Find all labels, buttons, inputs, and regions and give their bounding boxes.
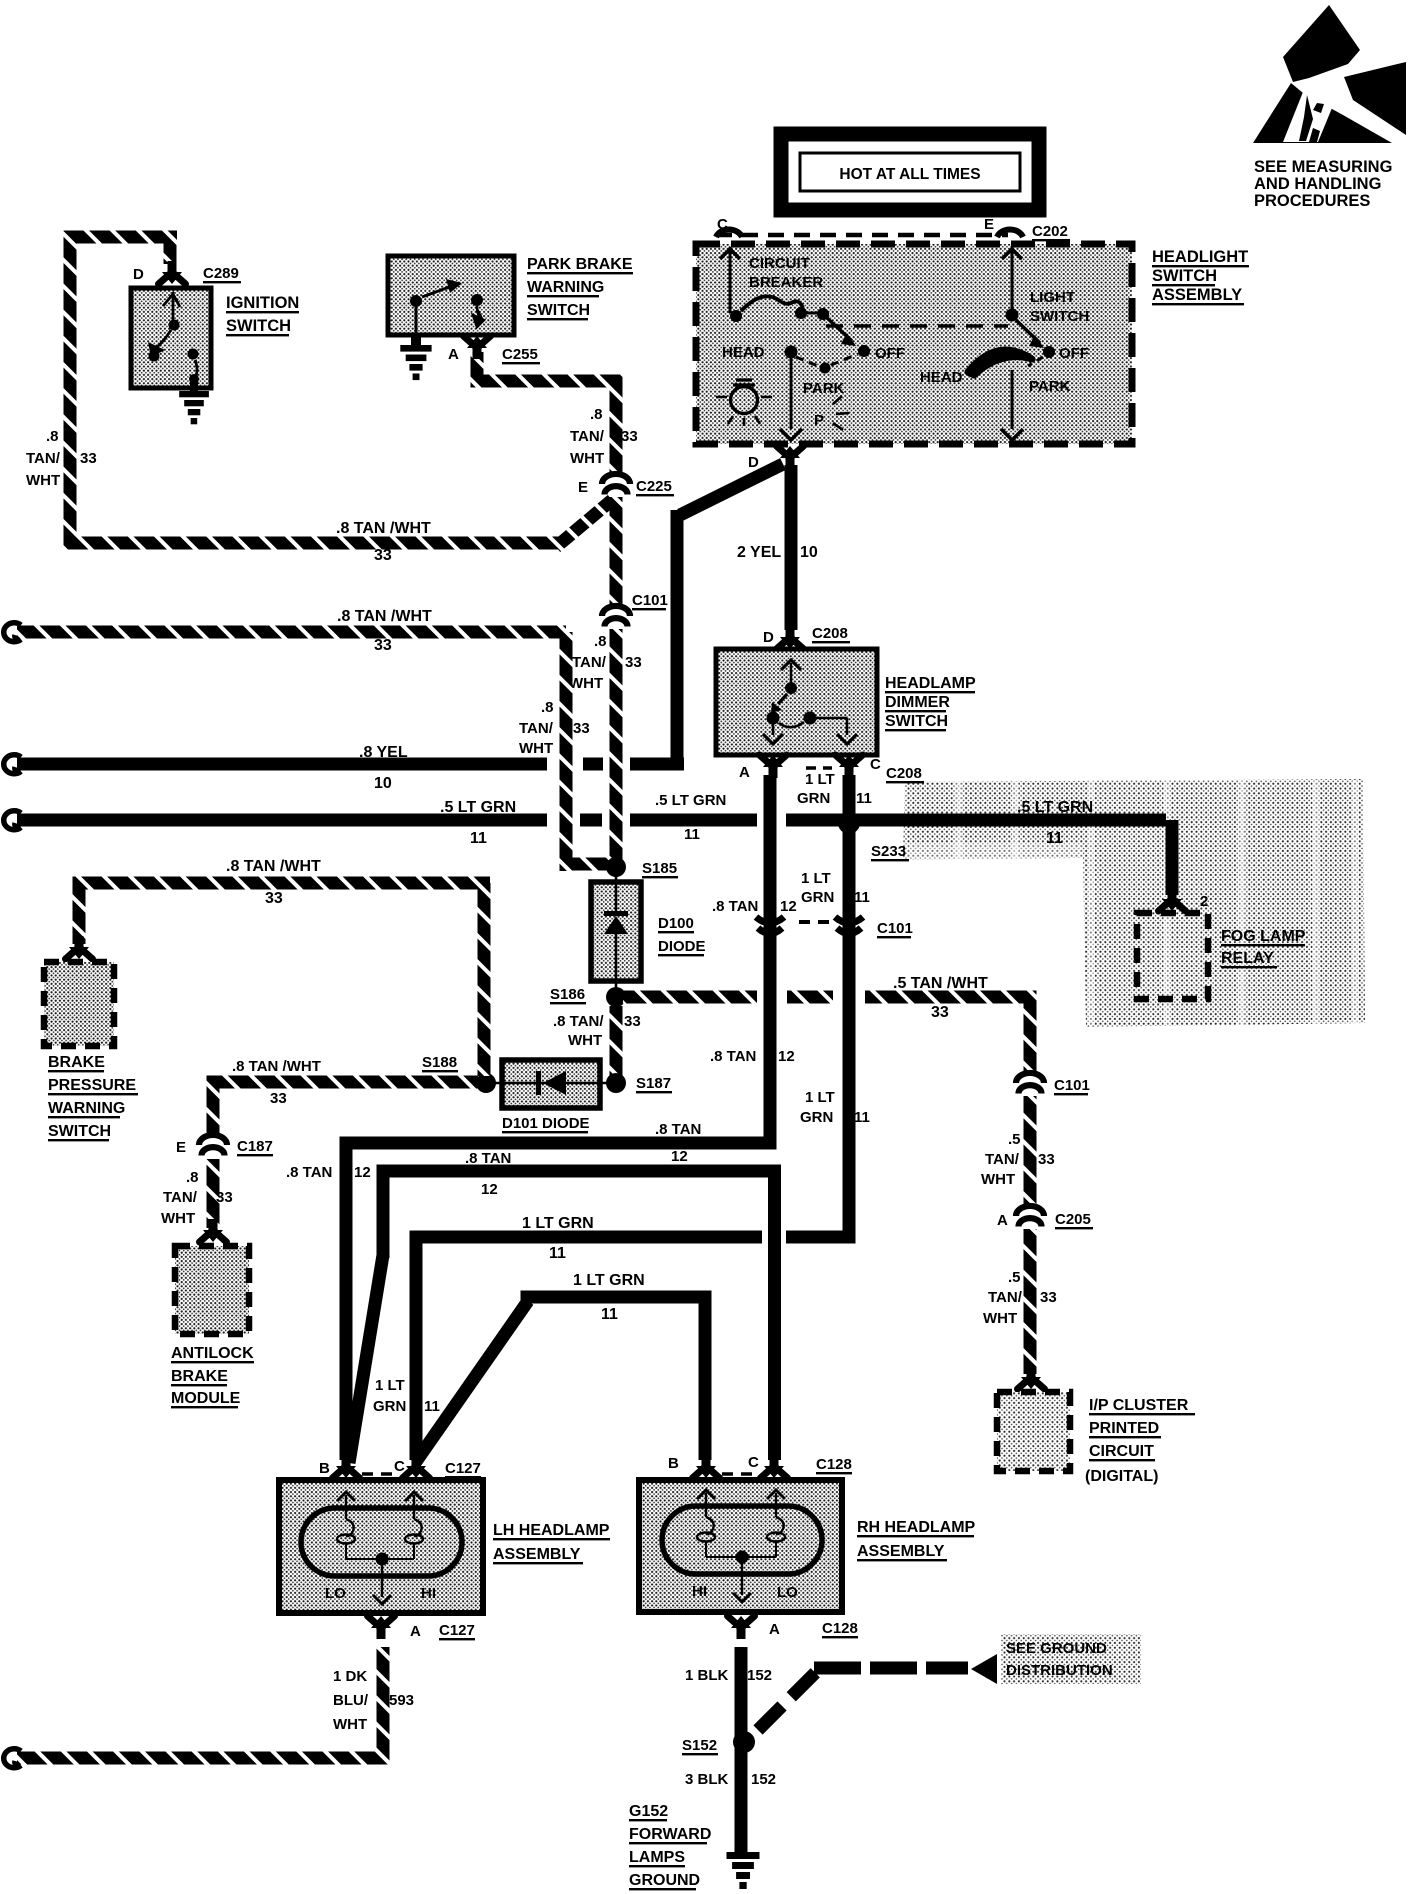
LH high-beam bulb	[405, 1492, 423, 1501]
svg-text:33: 33	[625, 654, 642, 671]
svg-text:1 LT: 1 LT	[805, 1089, 835, 1106]
svg-text:C101: C101	[877, 920, 913, 937]
svg-text:GRN: GRN	[801, 889, 834, 906]
svg-text:.8 YEL: .8 YEL	[359, 744, 408, 761]
svg-text:D: D	[133, 266, 144, 283]
wire break hook (.5 LT GRN)	[4, 811, 21, 830]
wire 1 BLK 152 / 3 BLK 152	[735, 1647, 748, 1852]
antilock brake module connector	[200, 1230, 227, 1242]
svg-text:A: A	[448, 346, 459, 363]
wire .8 YEL 10	[17, 758, 547, 771]
connector C208 pin A	[760, 755, 787, 767]
svg-text:1 LT: 1 LT	[375, 1377, 405, 1394]
svg-text:P: P	[814, 412, 824, 429]
svg-text:.5 LT GRN: .5 LT GRN	[1017, 799, 1093, 816]
svg-text:BRAKE: BRAKE	[171, 1368, 228, 1385]
svg-text:TAN/: TAN/	[26, 450, 61, 467]
svg-text:33: 33	[1040, 1289, 1057, 1306]
svg-text:.8 TAN /WHT: .8 TAN /WHT	[337, 608, 432, 625]
diode D101	[502, 1060, 600, 1108]
fog lamp relay	[1137, 913, 1208, 999]
svg-text:WHT: WHT	[568, 1032, 602, 1049]
svg-text:GRN: GRN	[373, 1398, 406, 1415]
svg-text:HEADLAMP: HEADLAMP	[885, 675, 976, 692]
svg-text:11: 11	[684, 826, 700, 843]
SEE GROUND DISTRIBUTION note	[1001, 1634, 1141, 1684]
svg-text:MODULE: MODULE	[171, 1390, 241, 1407]
svg-text:12: 12	[780, 898, 797, 915]
svg-text:C127: C127	[445, 1460, 481, 1477]
wire .8 TAN/WHT 33 to brake switch	[73, 877, 491, 890]
connector C255	[464, 336, 491, 348]
svg-text:12: 12	[778, 1048, 795, 1065]
svg-text:WHT: WHT	[570, 450, 604, 467]
svg-text:PRESSURE: PRESSURE	[48, 1077, 136, 1094]
park brake warning switch	[388, 256, 514, 335]
svg-text:CIRCUIT: CIRCUIT	[1089, 1443, 1154, 1460]
wire: D diagonal	[680, 464, 783, 515]
svg-text:TAN/: TAN/	[519, 720, 554, 737]
svg-text:D: D	[748, 454, 759, 471]
connector C225	[602, 474, 630, 484]
svg-text:CIRCUIT: CIRCUIT	[749, 255, 810, 272]
wire: park brake to C225	[471, 352, 484, 375]
antilock brake module	[175, 1246, 249, 1334]
svg-text:33: 33	[374, 637, 392, 654]
PARK contact	[796, 357, 818, 366]
RH low-beam bulb	[767, 1490, 785, 1499]
svg-text:C187: C187	[237, 1138, 273, 1155]
wire: ignition feed .8 TAN/WHT 33	[64, 231, 178, 244]
svg-text:11: 11	[854, 1109, 870, 1126]
svg-text:.8: .8	[46, 428, 59, 445]
svg-text:(DIGITAL): (DIGITAL)	[1085, 1468, 1158, 1485]
svg-text:WHT: WHT	[983, 1310, 1017, 1327]
C202 pin C arc	[716, 229, 742, 237]
headlight switch assembly box	[696, 244, 1132, 444]
svg-text:C205: C205	[1055, 1211, 1091, 1228]
wire .8 TAN/WHT 33 from left	[17, 626, 566, 639]
svg-text:A: A	[739, 764, 750, 781]
svg-text:D101 DIODE: D101 DIODE	[502, 1115, 590, 1132]
ignition switch ground	[179, 391, 209, 397]
shaded fog-lamp option region	[903, 779, 1365, 1027]
svg-text:10: 10	[800, 544, 818, 561]
svg-text:TAN/: TAN/	[572, 654, 607, 671]
svg-text:HI: HI	[421, 1585, 436, 1602]
svg-text:A: A	[997, 1212, 1008, 1229]
brake pressure warning switch	[44, 962, 114, 1046]
connector C127 pin B	[333, 1466, 360, 1478]
wire .5 LT GRN 11	[17, 814, 547, 827]
svg-text:PARK: PARK	[803, 380, 845, 397]
svg-text:SWITCH: SWITCH	[1152, 267, 1217, 285]
svg-text:33: 33	[931, 1004, 949, 1021]
I/P cluster connector	[1018, 1377, 1045, 1389]
svg-text:33: 33	[270, 1090, 287, 1107]
svg-text:11: 11	[856, 790, 872, 807]
svg-text:FORWARD: FORWARD	[629, 1826, 711, 1843]
C202 pin E arc	[997, 229, 1023, 237]
arrow to ground distribution	[971, 1654, 997, 1684]
dashed wire to ground distribution	[758, 1665, 823, 1730]
svg-text:BRAKE: BRAKE	[48, 1054, 105, 1071]
svg-text:LAMPS: LAMPS	[629, 1849, 685, 1866]
svg-text:.8 TAN /WHT: .8 TAN /WHT	[336, 520, 431, 537]
wire: diagonal into C225	[556, 500, 612, 547]
svg-text:11: 11	[854, 889, 870, 906]
svg-text:B: B	[319, 1460, 330, 1477]
svg-text:.8 TAN/: .8 TAN/	[553, 1013, 604, 1030]
svg-text:1 LT GRN: 1 LT GRN	[573, 1272, 645, 1289]
svg-text:C: C	[394, 1458, 405, 1475]
svg-text:D: D	[763, 629, 774, 646]
park brake switch contacts	[410, 295, 422, 307]
svg-text:BLU/: BLU/	[333, 1692, 369, 1709]
svg-text:C202: C202	[1032, 223, 1068, 240]
svg-text:PROCEDURES: PROCEDURES	[1254, 192, 1370, 210]
fog lamp relay terminal 2	[1159, 899, 1186, 911]
svg-text:C101: C101	[1054, 1077, 1090, 1094]
connector C101 on A wire	[756, 917, 784, 923]
HOT AT ALL TIMES box	[781, 134, 1039, 210]
svg-text:S233: S233	[871, 843, 906, 860]
svg-text:12: 12	[671, 1148, 688, 1165]
svg-text:SWITCH: SWITCH	[48, 1123, 111, 1140]
svg-text:.5: .5	[1008, 1269, 1021, 1286]
splice S152	[733, 1731, 755, 1753]
svg-text:1 DK: 1 DK	[333, 1668, 367, 1685]
svg-text:152: 152	[751, 1771, 776, 1788]
svg-text:I/P CLUSTER: I/P CLUSTER	[1089, 1397, 1189, 1414]
LH low-beam bulb	[337, 1492, 355, 1501]
svg-text:DISTRIBUTION: DISTRIBUTION	[1006, 1662, 1113, 1679]
wire 1 LT GRN 11 from dimmer C	[843, 775, 856, 1237]
splice S187	[606, 1073, 626, 1093]
svg-text:WHT: WHT	[519, 740, 553, 757]
svg-text:BREAKER: BREAKER	[749, 274, 823, 291]
svg-text:.8 TAN: .8 TAN	[710, 1048, 756, 1065]
svg-text:SWITCH: SWITCH	[226, 317, 291, 335]
linkage dashed line	[826, 324, 1008, 328]
RH headlamp assembly	[639, 1480, 842, 1612]
wire break hook (.8 YEL)	[4, 755, 21, 774]
connector C127 pin A	[368, 1616, 395, 1628]
svg-text:WARNING: WARNING	[527, 279, 604, 296]
ESD warning symbol (hand in triangle)	[1253, 5, 1406, 143]
svg-text:GRN: GRN	[800, 1109, 833, 1126]
circuit breaker branch	[729, 247, 732, 313]
svg-text:WHT: WHT	[333, 1716, 367, 1733]
LH common filament node	[376, 1553, 389, 1566]
svg-text:ASSEMBLY: ASSEMBLY	[857, 1543, 945, 1560]
svg-text:LH HEADLAMP: LH HEADLAMP	[493, 1522, 610, 1539]
svg-text:11: 11	[1046, 830, 1063, 847]
ignition switch	[131, 288, 211, 388]
svg-text:A: A	[410, 1623, 421, 1640]
svg-text:RH HEADLAMP: RH HEADLAMP	[857, 1519, 976, 1536]
svg-text:C127: C127	[439, 1622, 475, 1639]
svg-text:WARNING: WARNING	[48, 1100, 125, 1117]
svg-text:.8 TAN: .8 TAN	[655, 1121, 701, 1138]
svg-text:G152: G152	[629, 1803, 668, 1820]
svg-text:HEAD: HEAD	[722, 344, 765, 361]
svg-text:3 BLK: 3 BLK	[685, 1771, 729, 1788]
svg-text:11: 11	[601, 1306, 618, 1323]
svg-text:WHT: WHT	[569, 675, 603, 692]
svg-text:.5 LT GRN: .5 LT GRN	[655, 792, 726, 809]
svg-text:LO: LO	[777, 1584, 798, 1601]
svg-text:.8: .8	[186, 1169, 199, 1186]
svg-text:ANTILOCK: ANTILOCK	[171, 1345, 254, 1362]
svg-text:OFF: OFF	[1059, 345, 1089, 362]
svg-text:.8 TAN: .8 TAN	[465, 1150, 511, 1167]
svg-text:S187: S187	[636, 1075, 671, 1092]
ground G152	[727, 1852, 760, 1859]
OFF contact (breaker side)	[858, 345, 870, 357]
svg-text:B: B	[668, 1455, 679, 1472]
svg-text:E: E	[984, 216, 994, 233]
wire: vertical to .8 YEL	[671, 510, 684, 763]
svg-text:S185: S185	[642, 860, 677, 877]
svg-text:1 LT: 1 LT	[801, 870, 831, 887]
wire .8 TAN/WHT C101 to S185	[610, 629, 623, 860]
svg-text:HEADLIGHT: HEADLIGHT	[1152, 248, 1248, 266]
connector C128 pin B	[693, 1466, 720, 1478]
light switch branch	[1011, 247, 1014, 310]
svg-text:33: 33	[624, 1013, 641, 1030]
connector C101 on C wire	[835, 917, 863, 923]
RH high-beam bulb	[697, 1490, 715, 1499]
I/P cluster printed circuit	[997, 1392, 1070, 1471]
wire .8 TAN/WHT below C225	[610, 497, 623, 608]
svg-text:C255: C255	[502, 346, 538, 363]
svg-text:PARK: PARK	[1029, 378, 1071, 395]
svg-text:C128: C128	[822, 1620, 858, 1637]
svg-text:33: 33	[573, 720, 590, 737]
splice S233	[838, 812, 860, 834]
splice S185	[606, 857, 626, 877]
svg-text:33: 33	[265, 890, 283, 907]
wire 1 LT GRN 11 to LH headlamp HI	[410, 1231, 763, 1244]
svg-text:12: 12	[354, 1164, 371, 1181]
ignition switch contacts	[172, 292, 175, 320]
svg-text:S152: S152	[682, 1737, 717, 1754]
svg-text:FOG LAMP: FOG LAMP	[1221, 928, 1306, 945]
svg-text:12: 12	[481, 1181, 498, 1198]
svg-text:11: 11	[424, 1398, 440, 1415]
LH headlamp assembly	[279, 1480, 483, 1613]
wire: diagonal into LH B	[349, 1255, 383, 1463]
svg-text:SWITCH: SWITCH	[1030, 308, 1089, 325]
OFF contact (switch side)	[1043, 346, 1055, 358]
svg-text:WHT: WHT	[981, 1171, 1015, 1188]
svg-text:TAN/: TAN/	[985, 1151, 1020, 1168]
svg-text:OFF: OFF	[875, 345, 905, 362]
svg-text:HI: HI	[692, 1583, 707, 1600]
dimmer switch wiper and contacts	[781, 660, 801, 670]
connector C202 dashed line	[716, 233, 1008, 238]
svg-text:C128: C128	[816, 1456, 852, 1473]
connector C205	[1016, 1206, 1044, 1216]
svg-text:.5 TAN /WHT: .5 TAN /WHT	[893, 975, 988, 992]
svg-text:ASSEMBLY: ASSEMBLY	[493, 1546, 581, 1563]
svg-text:33: 33	[216, 1189, 233, 1206]
svg-text:RELAY: RELAY	[1221, 950, 1274, 967]
RH headlamp bulb oval	[662, 1506, 822, 1574]
svg-text:WHT: WHT	[26, 472, 60, 489]
svg-text:1 LT GRN: 1 LT GRN	[522, 1215, 594, 1232]
svg-text:WHT: WHT	[161, 1210, 195, 1227]
svg-text:AND HANDLING: AND HANDLING	[1254, 175, 1381, 193]
connector C289	[159, 272, 186, 284]
svg-text:593: 593	[389, 1692, 414, 1709]
headlamp dimmer switch	[716, 649, 877, 755]
LH headlamp bulb oval	[301, 1508, 462, 1576]
terminal D of headlight switch	[777, 446, 804, 458]
svg-text:S188: S188	[422, 1054, 457, 1071]
svg-text:SWITCH: SWITCH	[527, 302, 590, 319]
svg-text:E: E	[578, 479, 588, 496]
svg-text:C225: C225	[636, 478, 672, 495]
svg-text:33: 33	[621, 428, 638, 445]
svg-text:.8 TAN /WHT: .8 TAN /WHT	[232, 1058, 321, 1075]
svg-text:.5: .5	[1008, 1131, 1021, 1148]
svg-text:.8: .8	[590, 406, 603, 423]
wire .8 TAN/WHT S186-S187	[610, 1006, 623, 1076]
svg-text:.8: .8	[541, 699, 554, 716]
wire .8 TAN 12 from dimmer A	[764, 775, 777, 1143]
brake pressure switch connector	[66, 947, 93, 959]
svg-text:IGNITION: IGNITION	[226, 294, 299, 312]
connector C101 (right)	[1016, 1073, 1044, 1083]
wire 1 LT GRN 11 crossover to RH HI	[521, 1291, 712, 1304]
wire: diagonal from LH C	[415, 1301, 528, 1463]
svg-text:.5 LT GRN: .5 LT GRN	[440, 799, 516, 816]
svg-text:11: 11	[549, 1245, 566, 1262]
wire .8 TAN/WHT 33 S188 to C187	[207, 1076, 479, 1089]
wire 1 DK BLU/WHT 593	[377, 1647, 390, 1758]
connector C128 pin C	[761, 1466, 788, 1478]
park brake switch ground	[400, 345, 431, 352]
splice S186	[606, 987, 626, 1007]
connector C101 (left)	[602, 606, 630, 616]
svg-text:.8 TAN: .8 TAN	[712, 898, 758, 915]
svg-text:33: 33	[80, 450, 97, 467]
svg-text:C208: C208	[886, 765, 922, 782]
svg-text:TAN/: TAN/	[988, 1289, 1023, 1306]
svg-text:SEE GROUND: SEE GROUND	[1006, 1640, 1107, 1657]
svg-text:33: 33	[1038, 1151, 1055, 1168]
svg-text:HEAD: HEAD	[920, 369, 963, 386]
svg-text:LIGHT: LIGHT	[1030, 289, 1075, 306]
connector C208 pin D	[777, 637, 804, 649]
svg-text:.8 TAN: .8 TAN	[286, 1164, 332, 1181]
svg-text:C: C	[717, 216, 728, 233]
svg-text:DIODE: DIODE	[658, 938, 706, 955]
wiper crescent	[968, 350, 1032, 375]
wire .8 TAN 12 to LH headlamp	[340, 1137, 777, 1150]
svg-text:2 YEL: 2 YEL	[737, 544, 781, 561]
svg-text:SEE MEASURING: SEE MEASURING	[1254, 158, 1392, 176]
splice S188	[476, 1073, 496, 1093]
svg-text:TAN/: TAN/	[163, 1189, 198, 1206]
svg-text:2: 2	[1200, 893, 1208, 910]
svg-text:C: C	[748, 1454, 759, 1471]
svg-text:C101: C101	[632, 592, 668, 609]
svg-text:GRN: GRN	[797, 790, 830, 807]
RH common filament node	[736, 1551, 749, 1564]
svg-text:1 BLK: 1 BLK	[685, 1667, 729, 1684]
connector C208 pin C	[836, 755, 863, 767]
wire break hook (1 DK BLU/WHT)	[4, 1749, 21, 1768]
svg-text:C289: C289	[203, 265, 239, 282]
svg-text:A: A	[769, 1621, 780, 1638]
svg-text:DIMMER: DIMMER	[885, 694, 950, 711]
connector C187	[199, 1135, 227, 1145]
svg-text:C: C	[870, 756, 881, 773]
svg-text:C208: C208	[812, 625, 848, 642]
diode D100	[591, 882, 641, 981]
svg-text:10: 10	[374, 775, 392, 792]
svg-text:D100: D100	[658, 915, 694, 932]
svg-text:GROUND: GROUND	[629, 1872, 700, 1889]
svg-text:PARK BRAKE: PARK BRAKE	[527, 256, 633, 273]
svg-text:HOT AT ALL TIMES: HOT AT ALL TIMES	[839, 166, 980, 183]
svg-text:LO: LO	[325, 1585, 346, 1602]
svg-text:SWITCH: SWITCH	[885, 713, 948, 730]
wire .5 LT GRN to fog lamp relay	[1166, 820, 1179, 895]
bulb symbol	[731, 387, 758, 414]
wire .8 TAN 12 crossover to RH LO	[377, 1165, 782, 1178]
svg-text:11: 11	[470, 830, 487, 847]
svg-text:1 LT: 1 LT	[805, 771, 835, 788]
svg-text:PRINTED: PRINTED	[1089, 1420, 1159, 1437]
svg-text:33: 33	[374, 547, 392, 564]
wire 2 YEL 10	[785, 465, 798, 630]
svg-text:S186: S186	[550, 986, 585, 1003]
svg-text:.8 TAN /WHT: .8 TAN /WHT	[226, 858, 321, 875]
connector C127 pin C	[403, 1466, 430, 1478]
svg-text:ASSEMBLY: ASSEMBLY	[1152, 286, 1242, 304]
svg-text:TAN/: TAN/	[570, 428, 605, 445]
svg-text:E: E	[176, 1139, 186, 1156]
svg-text:152: 152	[747, 1667, 772, 1684]
wire .5 TAN/WHT 33 right	[623, 991, 757, 1004]
svg-text:.8: .8	[594, 633, 607, 650]
wire break hook (.8 TAN/WHT)	[4, 623, 21, 642]
connector C128 pin A	[728, 1616, 755, 1628]
